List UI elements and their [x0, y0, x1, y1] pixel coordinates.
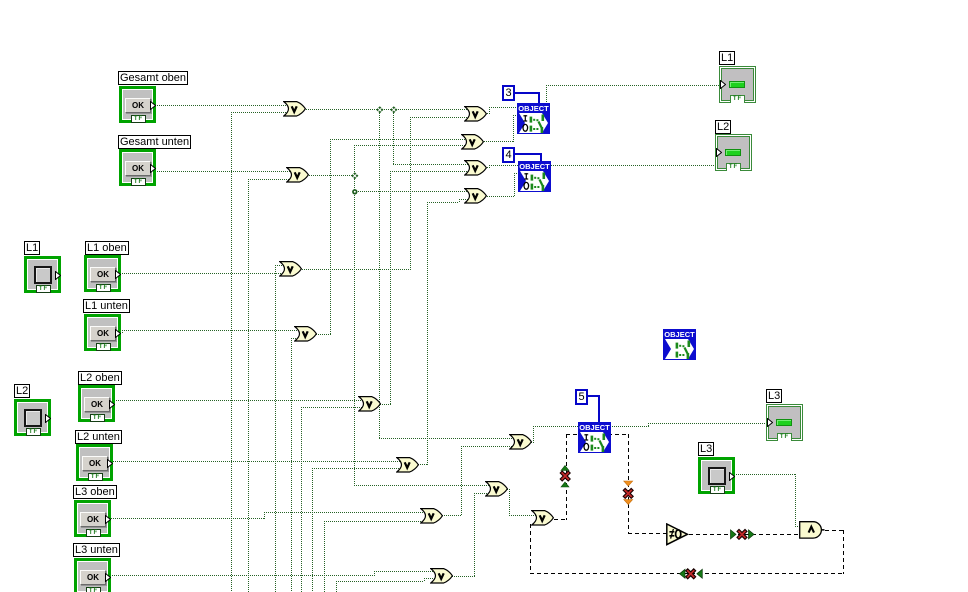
broken wire gate B output up riser — [0, 0, 968, 1]
wire gate A output to gate B upper — [0, 0, 968, 1]
broken wire bottom return run — [530, 573, 844, 574]
invoke node OBJECT 5 — [578, 422, 611, 453]
broken wire across top of OBJECT5 — [566, 434, 629, 435]
or gate G5 — [358, 396, 382, 413]
label L1 unten — [83, 299, 130, 313]
broken wire X mark 1 with up arrows — [556, 458, 576, 494]
label L3 right control — [698, 442, 714, 456]
wire G8 output to gate A lower via riser — [0, 0, 968, 1]
blue wire constant 4 to OBJECT4 — [0, 0, 968, 1]
or gate G1 — [283, 101, 307, 118]
blue wire constant 3 to OBJECT3 — [0, 0, 968, 1]
or gate G6 — [396, 457, 420, 474]
junction node B — [389, 105, 399, 115]
wire Gesamt oben OK to OR G1 — [157, 105, 288, 106]
label L2 unten — [75, 430, 122, 444]
label L1 LED — [719, 51, 735, 65]
broken wire X mark 4 with left arrows — [673, 563, 711, 584]
control L2 unten — [76, 444, 113, 481]
broken wire not-equal output to AND lower — [689, 534, 799, 535]
or gate G8 — [430, 568, 454, 585]
wire OR2 output to OBJECT3 second input — [0, 0, 968, 1]
indicator L2 LED — [715, 134, 752, 171]
label L1 oben — [85, 241, 129, 255]
wire junction branch x393 down to right OR3 upper — [0, 0, 968, 1]
label L2 LED — [715, 120, 731, 134]
wire OR4 output to OBJECT4 second input — [0, 0, 968, 1]
wire OR9 output to OBJECT5 ref input — [0, 0, 968, 1]
wire G3 output to right OR1 lower via riser — [0, 0, 968, 1]
wire G7 output to OR9 lower via riser — [0, 0, 968, 1]
wire L1 unten OK to OR G4 — [0, 0, 968, 1]
label Gesamt oben — [118, 71, 188, 85]
label L3 oben — [73, 485, 117, 499]
control L3 unten — [74, 558, 111, 592]
or gate G2 — [286, 167, 310, 184]
broken wire riser to gate B lower — [530, 524, 531, 574]
label L2 oben — [78, 371, 122, 385]
invoke node OBJECT unlabeled — [663, 329, 696, 360]
wire riser from below to G4 lower input — [0, 0, 968, 1]
broken wire X mark 2 with down arrows — [618, 475, 639, 511]
label L2 — [14, 384, 30, 398]
wire riser from below to G3 upper input — [0, 0, 968, 1]
wire riser from below to G2 lower input — [0, 0, 968, 1]
constant 5 — [575, 389, 588, 405]
constant 4 — [502, 147, 515, 163]
control L3 oben — [74, 500, 111, 537]
or gate right OR3 — [464, 160, 488, 177]
wire L3 square control to AND gate upper — [0, 0, 968, 1]
wire G5 output to right OR3 lower via riser — [0, 0, 968, 1]
broken wire X mark 3 with right arrows — [724, 524, 762, 545]
or gate B — [531, 510, 555, 527]
invoke node OBJECT 4 — [518, 161, 551, 192]
constant 3 — [502, 85, 515, 101]
wire Gesamt unten OK to OR G2 — [157, 171, 291, 172]
wire OBJECT5 output to L3 LED — [0, 0, 968, 1]
control L1 unten — [84, 314, 121, 351]
wire L1 oben OK to OR G3 — [122, 273, 285, 274]
comparison node not-equal-zero — [666, 523, 689, 546]
wire G4 output to right OR2 upper via riser — [0, 0, 968, 1]
broken wire down riser to not-equal node — [0, 0, 968, 1]
wire riser from below to G5 lower input — [0, 0, 968, 1]
wire riser from below to G1 lower input — [0, 0, 968, 1]
junction node A — [375, 105, 385, 115]
and gate U1 — [799, 521, 825, 540]
blue wire constant 5 to OBJECT5 — [0, 0, 968, 1]
invoke node OBJECT 3 — [517, 103, 550, 134]
wire OR1 output to OBJECT3 ref input — [0, 0, 968, 1]
wire L2 unten OK to OR G6 — [113, 461, 402, 462]
label Gesamt unten — [118, 135, 191, 149]
or gate G4 — [294, 326, 318, 343]
or gate right OR4 — [464, 188, 488, 205]
label L1 — [24, 241, 40, 255]
indicator L3 LED — [766, 404, 803, 441]
wire G6 output to right OR4 lower via riser — [0, 0, 968, 1]
control L1 square — [24, 256, 61, 293]
wire net riser x354 to OR2 lower, OR4 upper, gate A upper — [0, 0, 968, 1]
or gate A — [485, 481, 509, 498]
control Gesamt unten — [119, 149, 156, 186]
junction node D — [350, 187, 360, 197]
or gate OR9 — [509, 434, 533, 451]
wire OBJECT3 output to L1 LED — [0, 0, 968, 1]
wire L2 oben OK to OR G5 — [116, 400, 364, 401]
wire junction branch x379 down to OR9 upper — [0, 0, 968, 1]
wire riser from below to G6 lower input — [0, 0, 968, 1]
control Gesamt oben — [119, 86, 156, 123]
or gate G7 — [420, 508, 444, 525]
control L1 oben — [84, 255, 121, 292]
control L2 oben — [78, 385, 115, 422]
control L3 square right — [698, 457, 735, 494]
wire riser from below to G8 lower input — [0, 0, 968, 1]
wire OBJECT4 output to L2 LED — [551, 165, 716, 166]
wire L3 oben OK to OR G7 — [0, 0, 968, 1]
wire OR3 output to OBJECT4 ref input — [0, 0, 968, 1]
junction node C — [350, 171, 360, 181]
control L2 square — [14, 399, 51, 436]
label L3 LED — [766, 389, 782, 403]
or gate G3 — [279, 261, 303, 278]
wire riser from below to G7 lower input — [0, 0, 968, 1]
broken wire AND output loop right — [0, 0, 968, 1]
or gate right OR1 — [464, 106, 488, 123]
wire L3 unten OK to OR G8 — [0, 0, 968, 1]
or gate right OR2 — [461, 134, 485, 151]
label L3 unten — [73, 543, 120, 557]
indicator L1 LED — [719, 66, 756, 103]
wire G2 output to junction riser — [309, 175, 355, 176]
wire G1 output row to right OR1 upper — [306, 109, 470, 110]
